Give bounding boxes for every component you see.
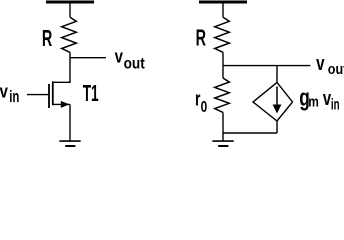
wire: gate from v_in <box>27 94 48 96</box>
svg-text:T1: T1 <box>83 82 99 108</box>
transistor T1 gate bar <box>48 84 50 108</box>
ground (left) bar 2 <box>65 145 75 147</box>
svg-text:v: v <box>115 46 124 67</box>
current source arrow shaft <box>276 87 278 106</box>
ground (left) bar 1 <box>59 140 80 142</box>
svg-text:v: v <box>316 52 324 75</box>
dependent current source diamond <box>253 82 293 121</box>
resistor r0 <box>215 78 230 112</box>
svg-text:0: 0 <box>201 97 208 115</box>
svg-text:R: R <box>42 27 52 52</box>
supply rail bar (right circuit) <box>199 1 247 4</box>
svg-text:in: in <box>9 88 19 107</box>
svg-text:out: out <box>124 56 145 73</box>
svg-text:v: v <box>323 87 331 110</box>
wire: resistor bottom through output node down to r0 <box>222 52 224 78</box>
ground (right) bar 2 <box>218 145 228 147</box>
wire: supply to resistor R (right) <box>222 2 224 17</box>
resistor R (right) <box>215 17 230 52</box>
ground (right) bar 1 <box>212 140 233 142</box>
transistor T1 source horizontal <box>53 103 70 105</box>
svg-text:v: v <box>0 81 8 102</box>
supply rail bar (left circuit) <box>46 1 94 4</box>
current source arrowhead <box>273 105 282 114</box>
svg-text:r: r <box>195 87 201 110</box>
transistor T1 source arrowhead <box>61 101 70 108</box>
svg-text:out: out <box>328 60 344 77</box>
svg-text:R: R <box>196 26 206 51</box>
wire: r0 bottom to bottom rail and ground <box>222 112 224 141</box>
bottom rail (right circuit) <box>223 132 277 134</box>
wire: node down to dependent source top <box>276 66 278 83</box>
transistor T1 channel bar <box>52 81 54 105</box>
svg-text:m: m <box>308 93 319 109</box>
wire: output tap to the right (left circuit) <box>70 57 106 59</box>
wire: dependent source bottom to rail <box>276 121 278 133</box>
wire: resistor bottom through node to drain corner <box>54 52 70 82</box>
wire: source down to ground <box>69 104 71 141</box>
wire: output node horizontal (right circuit) <box>223 65 310 67</box>
svg-text:in: in <box>331 95 340 113</box>
wire: supply to resistor R (left) <box>69 2 71 17</box>
resistor R (left) <box>62 17 77 52</box>
